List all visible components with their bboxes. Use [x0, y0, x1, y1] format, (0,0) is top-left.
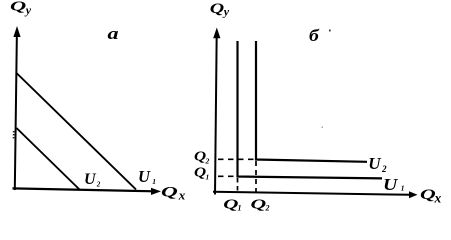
svg-text:1: 1 [206, 173, 210, 182]
right x-axis label Qx [420, 187, 442, 206]
svg-text:Q: Q [223, 196, 238, 212]
svg-text:2: 2 [265, 204, 270, 213]
right y-axis label Qy [210, 0, 230, 18]
svg-text:Q: Q [194, 165, 206, 180]
svg-text:Q: Q [10, 0, 26, 14]
label U2 (right diagram) [368, 154, 387, 174]
label U1 (left diagram) [138, 167, 156, 186]
svg-text:1: 1 [152, 177, 156, 186]
L-shaped indifference curve U2 (vertical at Q2, corner, horizontal at Q2 level) [256, 41, 367, 162]
right y-axis (vertical, arrow up) [213, 28, 220, 195]
L-shaped indifference curve U1 (vertical at Q1, corner, horizontal at Q1 level) [238, 41, 383, 178]
svg-text:Q: Q [420, 187, 436, 203]
dashed vertical guide below U1 corner down to x-axis [237, 178, 239, 194]
indifference line U1 (outer straight line) [17, 73, 137, 190]
left x-axis (horizontal, arrow right) [13, 188, 162, 195]
left y-axis (vertical, arrow up) [13, 26, 20, 190]
label U2 (left diagram) [84, 171, 101, 189]
svg-text:2: 2 [96, 181, 101, 189]
y-axis value label Q1 [194, 165, 209, 182]
svg-text:а: а [108, 24, 119, 43]
svg-text:Q: Q [251, 196, 267, 211]
right x-axis (horizontal, arrow right) [213, 191, 418, 198]
scan specks on left y-axis [13, 131, 15, 132]
x-axis value label Q2 [251, 196, 270, 212]
dashed guide from y-axis at Q1 level to U1 corner [218, 175, 237, 177]
svg-text:Q: Q [194, 149, 206, 164]
x-axis value label Q1 [223, 196, 241, 213]
dashed guide from y-axis at Q2 level to U2 corner [218, 158, 256, 160]
indifference line U2 (inner straight line) [17, 128, 80, 190]
svg-text:x: x [434, 191, 442, 206]
svg-text:Q: Q [161, 184, 178, 200]
svg-text:б: б [309, 26, 320, 45]
svg-text:U: U [383, 176, 398, 194]
label U1 (right diagram) [383, 176, 405, 194]
svg-text:1: 1 [401, 184, 405, 193]
svg-text:U: U [138, 167, 151, 186]
svg-text:x: x [178, 188, 186, 203]
svg-text:y: y [24, 3, 32, 17]
svg-text:Q: Q [210, 0, 225, 16]
svg-text:2: 2 [381, 164, 387, 174]
dashed vertical guide from U2 corner down to x-axis [255, 161, 257, 195]
left x-axis label Qx [161, 184, 186, 202]
left y-axis label Qy [10, 0, 32, 17]
svg-text:1: 1 [238, 204, 242, 213]
y-axis value label Q2 [194, 149, 210, 166]
svg-text:U: U [368, 154, 381, 173]
svg-text:y: y [222, 4, 230, 18]
svg-text:U: U [84, 171, 97, 188]
scan speckle near b [329, 30, 331, 32]
faint scan speckle mid-right [322, 127, 324, 129]
